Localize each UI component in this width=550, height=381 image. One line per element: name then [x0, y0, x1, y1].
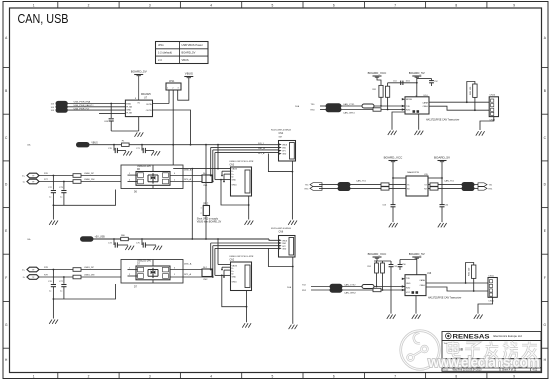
resistor R85 term [470, 84, 477, 97]
wire CN2 D- [221, 267, 230, 270]
svg-text:CN3: CN3 [230, 164, 235, 166]
svg-text:1u: 1u [60, 291, 62, 293]
ferrite FB RX1 r [462, 186, 474, 190]
wire CRX2 b [342, 289, 405, 291]
node tag USB_PWR_FAULT [51, 105, 68, 109]
svg-text:F: F [5, 276, 7, 280]
svg-text:USB_PWR_FLT: USB_PWR_FLT [74, 108, 90, 110]
svg-text:U16: U16 [427, 273, 432, 275]
jumper JP11 [166, 80, 181, 90]
wire CN6 pin3 [212, 246, 279, 278]
svg-text:RXD: RXD [406, 109, 411, 111]
svg-text:BOARD_VCC: BOARD_VCC [368, 252, 388, 256]
capacitor C75 [136, 238, 156, 248]
capacitor C73 [59, 181, 67, 206]
connector CN2 KMSU-24FT [230, 256, 254, 290]
svg-text:DP2: DP2 [282, 246, 286, 248]
svg-text:USB VBUS Power: USB VBUS Power [182, 43, 203, 47]
wire 5V to U14 [417, 77, 432, 97]
svg-text:E: E [5, 229, 7, 233]
svg-text:GND: GND [126, 110, 131, 112]
svg-text:DM1_A: DM1_A [184, 262, 192, 265]
svg-text:3: 3 [178, 88, 179, 90]
svg-text:1: 1 [167, 88, 168, 90]
svg-text:USB_PWR_FAULT#: USB_PWR_FAULT# [74, 104, 95, 107]
svg-text:KU2S-GMT-4G3N-B: KU2S-GMT-4G3N-B [271, 228, 291, 230]
svg-text:USB_PWR_ENA: USB_PWR_ENA [74, 101, 91, 104]
resistor R87 [381, 183, 389, 186]
svg-text:1u: 1u [60, 197, 62, 199]
wire gnd stub ch1 [52, 299, 54, 319]
svg-text:CAN_CTX1: CAN_CTX1 [343, 103, 355, 106]
ground CN10 [476, 131, 485, 135]
svg-text:TXD: TXD [406, 106, 411, 108]
node tag USB_PWR_ENA [51, 101, 68, 105]
svg-text:USB0_DP: USB0_DP [84, 173, 95, 175]
svg-text:VCC: VCC [406, 292, 411, 294]
node tag 5V USB [27, 237, 105, 242]
svg-text:DM2: DM2 [282, 243, 286, 245]
svg-text:5: 5 [272, 3, 274, 7]
svg-text:BOARD_VCC: BOARD_VCC [368, 71, 388, 75]
svg-text:VBUS: VBUS [91, 142, 98, 144]
svg-text:CAN_TX1: CAN_TX1 [356, 179, 367, 182]
ferrite FB RX1 [338, 186, 350, 190]
sheet title CAN, USB [18, 12, 69, 26]
connector CN6 KU2S-GMT [271, 228, 295, 257]
wire OUTB down [153, 110, 192, 146]
ground C70 [123, 151, 132, 155]
wire RX1 a [319, 187, 338, 189]
wire D+ to D6 [81, 173, 136, 176]
svg-text:1: 1 [129, 173, 130, 175]
logo RENESAS [446, 333, 523, 340]
svg-text:R95 120: R95 120 [469, 267, 471, 276]
resistor R82 [386, 86, 390, 97]
svg-text:2: 2 [129, 274, 130, 276]
wire CN4 shield loop [268, 154, 293, 220]
wire CN10 gnd [480, 117, 494, 130]
resistor R89 [430, 183, 438, 186]
svg-text:USB1_DM: USB1_DM [84, 275, 95, 277]
wire RX1 tag [474, 187, 478, 189]
resistor R95 term [469, 265, 476, 278]
svg-text:2/6A: 2/6A [287, 286, 292, 289]
node tag TX1 right [478, 183, 493, 187]
ground USB ch1 [49, 320, 58, 324]
svg-text:1-2 (default): 1-2 (default) [158, 51, 172, 55]
wire CN6 pin4 [215, 248, 279, 275]
wire CTX1 a [320, 105, 326, 107]
ESD array D6 USBLC6 [121, 165, 183, 194]
wire 5V rail B [428, 162, 443, 205]
svg-text:7: 7 [394, 375, 396, 379]
svg-text:B: B [544, 89, 546, 93]
svg-text:8: 8 [455, 3, 457, 7]
wire cap common ch1 [53, 284, 116, 300]
ground C71 [151, 151, 160, 155]
resistor R94 [373, 288, 381, 291]
svg-text:BOARD_VCC: BOARD_VCC [384, 156, 404, 160]
wire USB_PWR_FAULT [67, 104, 125, 107]
wire R92 down [382, 273, 384, 291]
ferrite CAN_CRX2 [330, 288, 356, 295]
common mode choke DL1 [202, 173, 212, 187]
wire JP12 riser [191, 144, 207, 240]
power flag BOARD_5V [131, 70, 147, 76]
svg-text:MODE: MODE [406, 99, 413, 101]
resistor R91 [367, 263, 378, 273]
wire VCC rail B [392, 162, 406, 205]
node tag USB1 D- [23, 275, 39, 280]
wire CN2 VBUS [217, 238, 230, 264]
svg-text:6: 6 [333, 3, 335, 7]
wire CN2 gnd down [246, 291, 248, 323]
wire CRX2 a [311, 289, 330, 291]
net label DM0_A [184, 168, 192, 171]
wire VBUS rail [89, 144, 279, 146]
svg-text:2: 2 [129, 179, 130, 181]
capacitor C69 [104, 103, 114, 131]
svg-text:BOARD_5V: BOARD_5V [409, 252, 425, 256]
svg-text:9: 9 [513, 3, 515, 7]
wire TX1 a [319, 184, 338, 186]
svg-text:D-: D- [232, 268, 234, 270]
svg-text:JP11: JP11 [169, 80, 175, 83]
wire CN6 pin1 jog [269, 239, 279, 240]
label U16 part [428, 297, 462, 300]
svg-text:1: 1 [129, 268, 130, 270]
capacitor C54 [440, 205, 450, 223]
wire CN4 pin2 [210, 147, 279, 176]
node tag USB_PWR [51, 108, 68, 112]
svg-text:B: B [5, 89, 7, 93]
svg-text:Electronics Europe Ltd: Electronics Europe Ltd [494, 334, 523, 338]
ground C75 [153, 246, 162, 250]
svg-text:2/6A: 2/6A [295, 105, 300, 108]
svg-text:F: F [544, 276, 546, 280]
watermark circle logo [401, 331, 440, 370]
capacitor C76 [48, 269, 56, 299]
jumper JP12 [200, 203, 209, 215]
wire CN6 shield loop [268, 248, 293, 323]
op-amp U7 MIC2025 power switch [125, 93, 152, 116]
fuse F1 [122, 141, 130, 147]
wire D+ in ch1 [39, 267, 73, 270]
capacitor C51 [0, 0, 410, 85]
svg-text:GND: GND [232, 180, 237, 182]
node tag USB0 D+ [22, 173, 39, 178]
capacitor C71 [136, 144, 154, 153]
ground C55 [387, 315, 396, 319]
power flag BOARD_5V C [409, 252, 425, 258]
power flag BOARD_5V A [409, 71, 425, 77]
svg-text:DP0_A: DP0_A [184, 178, 191, 181]
wire JP11 pin3 to VBUS flag [178, 78, 189, 101]
node tags CAN0 [295, 104, 315, 111]
ground U7 [135, 132, 144, 136]
wire D- to D7 [81, 275, 136, 278]
svg-text:RENESAS: RENESAS [453, 334, 491, 341]
svg-text:CAN, USB: CAN, USB [18, 12, 69, 26]
svg-text:2: 2 [200, 213, 201, 215]
svg-text:2: 2 [88, 375, 90, 379]
svg-text:DP1: DP1 [282, 151, 286, 153]
common mode choke DL2 [202, 267, 212, 281]
svg-text:BOARD_5V: BOARD_5V [131, 70, 147, 74]
svg-text:KMSU-24FT-PSOL-NTR: KMSU-24FT-PSOL-NTR [230, 161, 254, 163]
wire cap rail A [388, 82, 418, 86]
power flag BOARD_VCC A [368, 71, 388, 77]
wire gnd stub ch0 [52, 205, 54, 219]
wire CN2 D+ [223, 270, 230, 278]
op-amp U15 isolator [406, 171, 429, 196]
resistor R77 [73, 180, 81, 184]
wire U14 gnd left [392, 112, 405, 130]
svg-text:CN10: CN10 [490, 95, 496, 97]
resistor R81 [372, 85, 383, 97]
wire cap common ch0 [53, 190, 116, 207]
svg-text:D-: D- [23, 182, 26, 184]
note JP12 [197, 217, 222, 223]
wire CANH C [426, 282, 488, 284]
svg-text:ENA: ENA [126, 103, 131, 106]
wire R81 down [380, 97, 382, 107]
capacitor C52 [429, 81, 438, 86]
ground CN6 [289, 325, 298, 329]
net label ch1 pins [258, 143, 265, 155]
capacitor C55 [389, 265, 398, 314]
capacitor C72 [48, 175, 56, 206]
title block title row [444, 342, 464, 351]
svg-text:1: 1 [33, 375, 35, 379]
resistor R90 [430, 187, 438, 190]
svg-text:VBUS from BOARD_5V: VBUS from BOARD_5V [197, 221, 222, 224]
wire D7 out DP [170, 276, 213, 278]
wire CTX2 a [311, 286, 330, 288]
svg-text:JP12: JP12 [203, 203, 209, 205]
ground U14 [415, 131, 424, 135]
connector CN4 KU2S-GMT [271, 130, 296, 161]
wire CANH A [429, 101, 489, 103]
ferrite FB TX1 [338, 179, 367, 186]
svg-text:www.elecfans.com: www.elecfans.com [427, 355, 540, 371]
svg-text:VBUS: VBUS [185, 72, 193, 76]
connector CN10 [489, 95, 498, 122]
svg-text:OUTB: OUTB [146, 110, 152, 112]
svg-text:VBUS: VBUS [182, 58, 189, 62]
svg-text:CANL: CANL [423, 105, 429, 108]
ground U14 left [388, 131, 397, 135]
capacitor C70 [108, 144, 126, 153]
transceiver U14 HA13721 [402, 95, 429, 114]
svg-text:1: 1 [200, 208, 201, 210]
svg-text:9: 9 [513, 375, 515, 379]
svg-text:R85 120: R85 120 [470, 86, 472, 95]
svg-text:6: 6 [333, 375, 335, 379]
wire VCC to R81 [377, 77, 381, 85]
ground C53 [389, 223, 398, 227]
wire CN3 gnd loop [220, 179, 250, 206]
svg-text:ISA6412PW: ISA6412PW [407, 171, 420, 174]
ground CN4 [288, 221, 297, 225]
wire RX1 b [350, 187, 406, 189]
svg-text:CAN_CTX2: CAN_CTX2 [344, 283, 356, 286]
resistor R93 [362, 285, 374, 289]
capacitor C56 [398, 264, 407, 270]
svg-text:CN11: CN11 [488, 300, 494, 302]
svg-text:4: 4 [210, 375, 212, 379]
svg-text:GND: GND [282, 249, 287, 251]
svg-text:CANL: CANL [420, 284, 426, 287]
wire bundle VBUS drop [217, 144, 219, 169]
svg-text:TXD: TXD [406, 278, 411, 280]
svg-text:FLGB: FLGB [126, 113, 132, 115]
svg-text:5: 5 [174, 274, 175, 276]
svg-text:8: 8 [455, 375, 457, 379]
svg-text:SHLD: SHLD [232, 185, 238, 187]
ferrite FB TX1 r [444, 179, 474, 186]
wire CANL C [426, 287, 488, 291]
net label DM1_A [184, 262, 192, 265]
capacitor C74 [108, 238, 128, 248]
wire U16 gnd [415, 296, 417, 314]
svg-text:6: 6 [174, 173, 175, 175]
wire D- in ch1 [39, 275, 73, 278]
wire U7 pin4 [99, 112, 125, 114]
wire U14 gnd [418, 114, 420, 130]
svg-text:BOARD_5V: BOARD_5V [434, 156, 450, 160]
wire BOARD_5V to U7 [135, 76, 139, 100]
resistor R80 [121, 235, 129, 241]
svg-text:2: 2 [172, 88, 173, 90]
wire VCC tee C [374, 258, 391, 264]
wire CN3 GND [215, 179, 231, 181]
svg-text:VBUS: VBUS [282, 145, 288, 147]
capacitor C77 [59, 276, 67, 299]
svg-text:E: E [544, 229, 546, 233]
wire CTX1 b [341, 105, 405, 107]
svg-text:BOARD_5V: BOARD_5V [409, 71, 425, 75]
power flag BOARD_VCC B [384, 156, 404, 162]
watermark url [427, 355, 540, 371]
watermark characters [448, 342, 537, 359]
wire CN4 pin4 [215, 153, 279, 180]
wire CN2 gnd loop [221, 275, 248, 308]
svg-text:CAN_TX1: CAN_TX1 [444, 179, 455, 182]
svg-text:5: 5 [272, 375, 274, 379]
wire TX1 right [428, 184, 462, 186]
svg-text:4: 4 [210, 3, 212, 7]
wire CN4 pin3 [212, 150, 279, 183]
ground U16 [412, 315, 421, 319]
svg-text:5V0_1: 5V0_1 [258, 143, 265, 145]
title block frame [442, 332, 541, 372]
transceiver U16 HA13721 [402, 273, 432, 296]
svg-text:USB0_DM: USB0_DM [84, 179, 95, 181]
svg-text:USBLC6-2P6: USBLC6-2P6 [137, 166, 152, 168]
wire CN3 D+ [223, 174, 230, 182]
wire CN11 gnd [478, 297, 493, 313]
wire CN3 gnd down [248, 196, 250, 220]
ground C54 [438, 223, 447, 227]
svg-text:KU2S-GMT-4G3N-B: KU2S-GMT-4G3N-B [271, 130, 291, 132]
svg-text:CN11: CN11 [488, 275, 494, 277]
node tag USB0 D- [23, 179, 39, 184]
svg-text:2-3: 2-3 [158, 58, 162, 62]
power flag BOARD_VCC C [368, 252, 388, 258]
svg-text:JP11: JP11 [158, 43, 164, 47]
wire 5V to U16 [400, 258, 417, 275]
svg-text:USBLC6-2P6: USBLC6-2P6 [137, 260, 152, 262]
svg-text:CAN_CRX2: CAN_CRX2 [344, 292, 356, 295]
capacitor C53 [382, 205, 395, 223]
svg-text:HA13721RPJE CAN Transceiver: HA13721RPJE CAN Transceiver [426, 119, 460, 122]
wire USB_PWR pin3 [67, 108, 125, 110]
ground CN11 [474, 315, 483, 319]
svg-text:D-: D- [232, 171, 234, 173]
wire D+ in [39, 173, 73, 176]
svg-text:GND: GND [282, 154, 287, 156]
svg-text:2: 2 [88, 3, 90, 7]
resistor R92 [381, 263, 385, 273]
title block date row [444, 369, 538, 372]
wire R85 top [466, 82, 475, 104]
wire CN3 VBUS [173, 168, 230, 170]
wire CRX1 b [341, 109, 405, 111]
power flag VBUS [184, 72, 193, 78]
wire CN2 GND [215, 274, 231, 276]
svg-text:+5V_USB: +5V_USB [95, 237, 106, 239]
svg-text:1u: 1u [49, 197, 51, 199]
wire R85 down [474, 97, 476, 111]
wire R95 down [473, 278, 475, 292]
svg-text:CN4: CN4 [279, 133, 284, 135]
wire JP11 pin2 VBUS feed [172, 90, 174, 169]
node tags CAN1 left [305, 183, 322, 191]
table JP11 options [156, 42, 209, 64]
wire D- to D6 [81, 179, 136, 182]
svg-text:D-: D- [23, 277, 26, 279]
svg-text:GM: GM [279, 136, 283, 138]
wire CANL A [429, 106, 489, 110]
title block doc row [444, 360, 533, 367]
svg-text:HA13721RPJE CAN Transceiver: HA13721RPJE CAN Transceiver [428, 297, 462, 300]
label U14 part [426, 119, 460, 122]
svg-text:1: 1 [33, 3, 35, 7]
svg-text:DP1_A: DP1_A [258, 152, 265, 155]
svg-text:Short JP12 to supply: Short JP12 to supply [197, 217, 219, 220]
ESD array D7 USBLC6 [121, 260, 183, 289]
wire CRX1 a [320, 109, 326, 111]
node tags CAN2 [287, 285, 307, 293]
svg-text:USB1_DP: USB1_DP [84, 267, 95, 269]
ferrite CAN_CTX2 [330, 283, 356, 288]
wire D7 out DM [170, 269, 211, 271]
svg-text:3: 3 [149, 375, 151, 379]
wire CTX2 b [342, 286, 405, 288]
svg-text:DP1_A: DP1_A [184, 273, 191, 276]
wire RX1 right [428, 187, 462, 189]
node tag RX1 right [478, 187, 493, 191]
ground CN2 [242, 323, 251, 327]
resistor R79 [73, 275, 81, 279]
wire R95 top [465, 263, 474, 284]
ground USB ch0 [49, 221, 58, 225]
wire USB_PWR_ENA [67, 101, 125, 104]
wire CN6 pin2 [210, 243, 279, 270]
svg-text:3: 3 [149, 3, 151, 7]
